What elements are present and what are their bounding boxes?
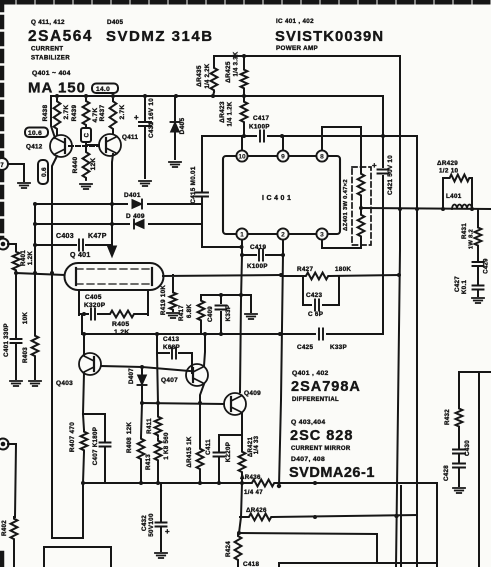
wire Q403 collector up	[83, 334, 85, 355]
svg-text:DIFFERENTIAL: DIFFERENTIAL	[292, 397, 339, 403]
resistor R402	[11, 517, 18, 541]
svg-text:ΔR426: ΔR426	[246, 507, 267, 514]
capacitor C427 K0.1	[477, 266, 479, 296]
wire rail y517 R426	[240, 515, 417, 517]
ground under R419	[167, 313, 179, 318]
capacitor C423 C6P	[303, 276, 339, 305]
diode D407	[141, 367, 143, 403]
svg-text:K33P: K33P	[225, 305, 232, 322]
svg-text:Q411: Q411	[122, 134, 138, 141]
resistor R435 1/4 2.2K	[213, 56, 214, 96]
svg-text:CURRENT: CURRENT	[31, 46, 63, 53]
wire T4 to R402	[8, 444, 16, 517]
svg-text:1 K8 560: 1 K8 560	[163, 432, 170, 460]
svg-text:Q401 ~ 404: Q401 ~ 404	[32, 70, 71, 77]
svg-text:D401: D401	[124, 192, 141, 199]
wire Q409 emitter down / R421	[241, 413, 243, 483]
svg-text:50V100: 50V100	[148, 513, 155, 537]
svg-text:R432: R432	[444, 409, 451, 425]
resistor R419 10K	[170, 291, 177, 311]
svg-text:D407: D407	[128, 368, 135, 384]
wire input node y273	[16, 273, 64, 275]
resistor R431 1W 8.2	[477, 209, 479, 261]
resistor R425 1/4 3.3K	[243, 56, 245, 96]
capacitor C407 K180P	[83, 414, 105, 483]
svg-text:1/4 33: 1/4 33	[254, 435, 260, 454]
svg-text:R408: R408	[126, 437, 133, 453]
svg-text:2SC 828: 2SC 828	[290, 428, 353, 444]
svg-text:R407 470: R407 470	[69, 422, 76, 452]
pin 10	[236, 150, 247, 161]
svg-text:K220P: K220P	[225, 442, 232, 462]
svg-text:9: 9	[281, 153, 285, 160]
svg-text:+: +	[372, 161, 377, 170]
resistor R436 1/4 47	[250, 480, 276, 487]
resistor R415 1K	[199, 403, 201, 483]
svg-text:L401: L401	[446, 193, 462, 200]
svg-text:2SA798A: 2SA798A	[291, 379, 361, 395]
svg-text:R440: R440	[72, 157, 79, 174]
svg-text:D407, 408: D407, 408	[291, 456, 325, 463]
resistor R407 470	[83, 414, 84, 483]
svg-text:Q 403,404: Q 403,404	[291, 419, 325, 426]
svg-text:C418: C418	[243, 561, 259, 567]
voltage box 0.6 (rotated)	[38, 160, 48, 184]
svg-text:R417: R417	[178, 305, 185, 321]
wire Q403 base to Q407/D407	[101, 366, 190, 371]
svg-text:C431 16V 10: C431 16V 10	[148, 98, 155, 138]
terminal T4	[0, 439, 9, 450]
svg-text:C430: C430	[464, 440, 471, 456]
svg-text:R402: R402	[1, 520, 8, 536]
ground under C432	[155, 553, 167, 558]
svg-text:2SA564: 2SA564	[28, 28, 93, 45]
resistor R426	[247, 514, 273, 521]
wire bottom rail y483	[83, 483, 437, 567]
svg-text:ΔZ401 3W 0.47×2: ΔZ401 3W 0.47×2	[343, 179, 349, 231]
wire Q411 emitter down to Q401	[112, 154, 113, 253]
svg-text:0.6: 0.6	[41, 167, 48, 177]
resistor R413	[155, 439, 162, 462]
svg-text:3: 3	[320, 231, 324, 238]
svg-text:CURRENT MIRROR: CURRENT MIRROR	[291, 446, 351, 452]
wire y295	[201, 295, 251, 312]
svg-text:1.2K: 1.2K	[27, 251, 34, 266]
capacitor C419 K100P	[242, 254, 283, 256]
capacitor C432 50V100 electrolytic	[160, 483, 162, 551]
ground under C428	[453, 488, 465, 493]
svg-text:R413: R413	[145, 454, 152, 470]
transistor Q411	[99, 134, 121, 156]
svg-text:ΔR429: ΔR429	[437, 160, 458, 167]
transistor Q409	[224, 393, 246, 415]
wire base rail y403	[142, 403, 224, 404]
pin 8	[316, 150, 327, 161]
wire bus y334	[82, 333, 383, 335]
svg-text:C427: C427	[454, 276, 461, 292]
resistor R411 560	[157, 353, 158, 415]
wire output rail y209	[361, 208, 491, 209]
svg-text:+: +	[165, 527, 170, 536]
svg-text:IC 401 , 402: IC 401 , 402	[276, 18, 314, 25]
resistor R439 4.7K	[83, 99, 90, 127]
svg-text:R411: R411	[146, 418, 153, 434]
svg-text:R437: R437	[99, 105, 106, 122]
wire rail y563	[279, 563, 437, 567]
svg-text:10K: 10K	[22, 312, 29, 324]
resistor R423 1/4 1.2K	[243, 96, 245, 136]
ground x251	[245, 314, 257, 319]
pin 9	[277, 150, 288, 161]
resistor R437 2.7K	[110, 99, 117, 131]
wire Q407 emitter down	[200, 384, 204, 403]
transistor Q407	[186, 364, 208, 386]
wire top rail y96	[51, 95, 383, 97]
svg-text:C405: C405	[85, 294, 102, 301]
capacitor C409 K33P	[220, 295, 222, 334]
svg-text:K33P: K33P	[330, 344, 347, 351]
transistor Q412	[50, 135, 72, 157]
svg-text:Q407: Q407	[161, 377, 178, 384]
wire Z401 bottom to pin3	[322, 240, 361, 248]
wire vertical C x400	[396, 56, 400, 567]
arrow into Q401 package	[108, 246, 117, 257]
resistor R405 1.2K	[108, 311, 136, 318]
wire stub R405 end down	[81, 315, 83, 334]
svg-text:R419 10K: R419 10K	[160, 285, 167, 315]
wire vertical D x417	[416, 136, 418, 567]
svg-text:K47P: K47P	[88, 233, 107, 240]
svg-text:C: C	[85, 132, 91, 137]
voltage box 10.6	[25, 128, 48, 138]
wire Q401 right to R419	[163, 275, 281, 291]
svg-text:Q412: Q412	[26, 144, 43, 151]
terminal T1 left edge	[0, 158, 8, 170]
wire Q407 collector up	[204, 334, 205, 366]
pin 1	[236, 228, 247, 239]
svg-text:10: 10	[238, 153, 246, 160]
svg-text:R424: R424	[225, 541, 232, 557]
resistor R432	[456, 407, 463, 428]
select box C	[81, 128, 91, 142]
ground under T1	[18, 183, 30, 188]
svg-text:C423: C423	[306, 292, 322, 299]
diode D401	[35, 203, 201, 205]
svg-text:12K: 12K	[90, 158, 97, 171]
svg-text:Q 401: Q 401	[70, 252, 91, 259]
capacitor C401 330P	[15, 273, 17, 379]
svg-text:8: 8	[320, 153, 324, 160]
wire pin1 riser down	[240, 240, 242, 392]
capacitor C428	[453, 464, 465, 468]
svg-text:+: +	[134, 113, 139, 122]
voltage box 14.0	[92, 84, 118, 94]
capacitor C431 16V 10 electrolytic	[144, 96, 146, 178]
svg-text:Q401 , 402: Q401 , 402	[292, 370, 329, 377]
wire right box vertical x479	[478, 372, 480, 567]
svg-text:ΔR436: ΔR436	[240, 474, 261, 481]
svg-text:1W 8.2: 1W 8.2	[469, 229, 475, 249]
svg-text:12K: 12K	[126, 422, 133, 434]
pin 2	[277, 228, 288, 239]
svg-text:C 6P: C 6P	[308, 311, 323, 318]
wire rail y56	[214, 55, 400, 57]
ground under D405	[169, 162, 181, 167]
svg-text:Q 411, 412: Q 411, 412	[31, 19, 65, 26]
svg-text:C413: C413	[163, 336, 179, 343]
wire R439 bottom / box C to Q411 base	[86, 127, 99, 150]
svg-text:1/2 10: 1/2 10	[439, 168, 459, 175]
svg-text:Q403: Q403	[56, 380, 73, 387]
svg-text:SVISTK0039N: SVISTK0039N	[275, 29, 384, 45]
svg-text:180K: 180K	[335, 266, 351, 273]
ground under R403	[29, 381, 41, 386]
capacitor C417 K100P	[260, 131, 264, 142]
Q401 right element bar	[151, 268, 153, 285]
svg-text:C425: C425	[297, 344, 313, 351]
diode D405 zener	[174, 96, 176, 159]
wire rail y533	[239, 533, 377, 563]
svg-text:ΔR435: ΔR435	[196, 65, 203, 87]
svg-text:C409: C409	[207, 306, 214, 322]
svg-text:R427: R427	[297, 266, 313, 273]
resistor R401 1.2K	[8, 244, 16, 250]
svg-text:D405: D405	[107, 19, 123, 26]
page border dash bottom-left edge	[0, 553, 4, 567]
resistor Z401 3W 0.47x2 dashed box	[352, 167, 371, 245]
capacitor C415 M0.01	[202, 136, 241, 247]
page border dashed top edge	[0, 0, 491, 5]
wire x52 to x83 U-join	[52, 483, 83, 538]
wire y372 right	[459, 371, 491, 373]
wire Q412 collector to rail	[51, 96, 55, 138]
Q401 left element bar	[75, 268, 77, 285]
capacitor C421 50V 10	[378, 170, 389, 174]
svg-text:ΔR423: ΔR423	[219, 101, 226, 123]
svg-text:K100P: K100P	[247, 263, 268, 270]
svg-text:C407 K180P: C407 K180P	[92, 427, 99, 465]
ground under C401	[10, 381, 22, 386]
svg-text:10.6: 10.6	[28, 130, 42, 137]
resistor R438 2.7K	[54, 99, 61, 131]
svg-text:2.7K: 2.7K	[63, 105, 70, 120]
wire Q412 emitter down	[52, 156, 57, 538]
svg-text:4.7K: 4.7K	[92, 108, 99, 123]
node rail junction dots	[55, 94, 59, 98]
wire C413 to Q407 base	[192, 353, 193, 373]
wire bottom box x401/x437	[400, 486, 402, 567]
svg-text:C411: C411	[205, 439, 212, 455]
wire R437 bottom to Q411 collector	[112, 131, 114, 134]
svg-text:C417: C417	[253, 115, 269, 122]
pin 3	[316, 228, 327, 239]
svg-text:R431: R431	[461, 223, 468, 239]
svg-text:SVDMA26-1: SVDMA26-1	[289, 465, 375, 481]
wire pin8 loop to Z401	[322, 127, 361, 160]
svg-text:R405: R405	[112, 321, 129, 328]
svg-text:C432: C432	[141, 515, 148, 531]
svg-text:1/4 2.2K: 1/4 2.2K	[205, 63, 211, 88]
wire T1 to ground	[8, 164, 24, 181]
svg-text:R401: R401	[20, 250, 27, 266]
svg-text:Q409: Q409	[244, 390, 261, 397]
terminal T2 input	[0, 239, 9, 250]
svg-text:1/4 47: 1/4 47	[244, 489, 263, 496]
resistor R427 180K	[281, 275, 399, 276]
svg-text:K100P: K100P	[249, 124, 270, 131]
svg-text:ΔR415 1K: ΔR415 1K	[186, 436, 193, 467]
svg-text:K0.1: K0.1	[461, 280, 468, 295]
svg-text:R438: R438	[42, 105, 49, 122]
resistor R408 12K	[141, 403, 142, 483]
svg-text:1/4 1.2K: 1/4 1.2K	[228, 101, 234, 126]
capacitor C429	[473, 262, 484, 266]
capacitor C403 K47P	[35, 244, 112, 246]
wire Q401 bases/collectors down	[79, 290, 148, 315]
svg-text:C428: C428	[443, 465, 450, 481]
svg-text:MA 150: MA 150	[28, 80, 86, 97]
dashed coupling Q412-Q411	[69, 145, 99, 147]
wire R438 bottom into Q412	[56, 131, 58, 135]
svg-text:D 409: D 409	[126, 213, 145, 220]
svg-text:STABILIZER: STABILIZER	[31, 55, 70, 62]
svg-text:R439: R439	[71, 105, 78, 122]
wire Q409 col down to y517	[239, 483, 242, 533]
svg-text:I C 4 0 1: I C 4 0 1	[262, 195, 291, 202]
svg-text:2.7K: 2.7K	[119, 105, 126, 120]
svg-text:C419: C419	[250, 244, 266, 251]
svg-text:R403: R403	[22, 347, 29, 363]
svg-text:1/4 3.3K: 1/4 3.3K	[234, 51, 240, 76]
wire pin2 riser down	[279, 240, 283, 486]
capacitor C411 K220P	[219, 435, 242, 483]
capacitor C430	[458, 428, 460, 462]
resistor R424	[235, 534, 242, 562]
svg-text:POWER AMP: POWER AMP	[276, 45, 318, 52]
capacitor C425 K33P	[319, 329, 323, 340]
svg-text:14.0: 14.0	[96, 86, 110, 93]
wire Q403 emitter down	[83, 373, 84, 414]
wire y136 C417 feed	[202, 135, 416, 137]
svg-text:D405: D405	[179, 118, 186, 135]
wire pin9 riser	[282, 136, 284, 149]
svg-text:C401 330P: C401 330P	[3, 323, 10, 357]
resistor R403 10K	[34, 204, 36, 379]
svg-text:ΔR425: ΔR425	[225, 61, 232, 83]
transistor Q403	[79, 353, 101, 375]
svg-text:2: 2	[281, 231, 285, 238]
resistor R417 6.8K	[200, 295, 202, 334]
page border dashed left edge	[0, 0, 4, 245]
op-amp IC401 package	[223, 156, 340, 234]
wire bottom staple	[44, 547, 111, 567]
svg-text:6.8K: 6.8K	[186, 304, 193, 319]
ground under R440	[80, 184, 92, 189]
svg-text:C403: C403	[56, 233, 74, 240]
diode D409	[35, 223, 201, 225]
ground under C431	[139, 181, 151, 186]
svg-text:C421 50V 10: C421 50V 10	[387, 155, 394, 195]
ground under C427	[472, 298, 484, 303]
svg-text:1: 1	[240, 231, 244, 238]
wire vertical A x383	[382, 96, 384, 334]
wire x459 down	[458, 372, 460, 407]
svg-text:SVDMZ 314B: SVDMZ 314B	[106, 28, 214, 45]
wire pin10 riser	[241, 136, 243, 149]
resistor R440 12K	[83, 150, 90, 180]
svg-text:C415 M0.01: C415 M0.01	[190, 166, 197, 204]
